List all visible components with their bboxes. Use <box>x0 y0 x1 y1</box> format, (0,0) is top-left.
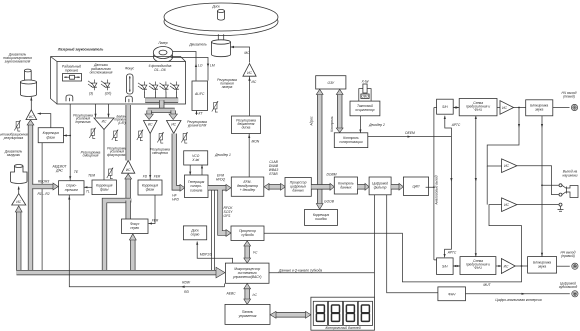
amp IC headphone R <box>502 198 517 212</box>
wire mute to RCA left <box>553 107 570 109</box>
wires VCO to sync generator <box>190 165 202 175</box>
positioning motor small cylinder <box>25 71 32 81</box>
svg-text:S/H: S/H <box>442 265 448 269</box>
box sync control <box>334 133 368 148</box>
box K2 phase correction tracking <box>92 180 116 195</box>
svg-text:Двигатель: Двигатель <box>188 43 207 47</box>
svg-text:смещения: смещения <box>152 151 168 155</box>
box control panel <box>225 304 270 324</box>
svg-text:Фокус: Фокус <box>125 67 135 71</box>
pot T_C right <box>181 132 187 143</box>
wire bottom channel line <box>453 265 527 267</box>
svg-text:ИС: ИС <box>504 264 509 268</box>
box microprocessor BACY <box>225 263 269 283</box>
wire laser to ALFC lines LO LM <box>171 52 209 81</box>
bus left main from antivib amp down <box>28 125 33 271</box>
wire T_B output FD FER down to K3 <box>149 134 151 181</box>
pot antivibration <box>14 120 20 131</box>
svg-text:ИС: ИС <box>29 115 34 119</box>
disc platter lower ellipse <box>164 8 278 36</box>
box pre-amp LPF top <box>459 99 497 116</box>
svg-text:LM: LM <box>210 64 215 68</box>
svg-text:MUT: MUT <box>483 283 491 287</box>
svg-text:Лазерный звукосниматель: Лазерный звукосниматель <box>57 48 103 52</box>
svg-text:Контрольный дисплей: Контрольный дисплей <box>325 326 360 330</box>
svg-text:Лазер: Лазер <box>157 41 167 45</box>
bus T_C output to sync generator <box>174 134 180 188</box>
box K1 phase correction <box>38 128 63 143</box>
display box <box>311 297 375 330</box>
bus I2C microprocessor to panel <box>245 288 250 299</box>
svg-text:X-tal: X-tal <box>361 80 369 84</box>
box ALFC laser power <box>192 81 208 111</box>
svg-text:ФНЧ: ФНЧ <box>474 108 482 112</box>
box S/H top <box>437 99 454 114</box>
amp IC bottom channel <box>501 259 515 274</box>
svg-text:RD: RD <box>184 290 189 294</box>
amp IC focus drive <box>122 160 135 173</box>
radial tracking coil element <box>63 74 82 82</box>
svg-text:Контроль: Контроль <box>330 116 334 132</box>
svg-text:ДАС: ДАС <box>55 168 63 172</box>
wire to pre-amp top and bottom <box>475 116 477 257</box>
box K3 phase correction focus <box>138 180 162 195</box>
svg-text:X-tal: X-tal <box>191 158 199 162</box>
main photodiode D4 <box>170 82 179 93</box>
bus processor to data control <box>311 184 330 189</box>
svg-text:I²C: I²C <box>253 293 258 297</box>
svg-text:серво: серво <box>191 233 200 237</box>
svg-text:AL/FC: AL/FC <box>194 92 205 96</box>
wire headphone R out to jack <box>517 204 559 206</box>
wire DAC output vertical to both S/H <box>426 108 437 260</box>
svg-text:ИС: ИС <box>16 200 21 204</box>
pot tracking balance <box>112 130 118 141</box>
label LO LM arrows <box>195 64 197 67</box>
box pre-amp LPF bottom <box>460 257 496 275</box>
box sound mute bottom <box>528 257 557 274</box>
svg-text:D1...D6: D1...D6 <box>154 68 165 72</box>
svg-text:Цифро-аналоговая конверсия: Цифро-аналоговая конверсия <box>495 298 541 302</box>
box FNCH <box>438 287 466 301</box>
big system bus to microprocessor <box>17 270 217 275</box>
svg-text:LO: LO <box>198 64 203 68</box>
bus focus servo output up <box>126 201 131 220</box>
box servo tracking <box>59 181 84 195</box>
svg-text:фазы: фазы <box>146 188 155 192</box>
wire K1 bottom down <box>41 143 43 270</box>
svg-text:FER: FER <box>152 219 159 223</box>
jack contact circles <box>559 184 562 187</box>
amp IC EFM (T_C) <box>167 121 182 134</box>
box sync generator <box>185 175 209 198</box>
wire MON from EFM decoder to disc motor regulator <box>248 134 250 178</box>
label KT under ALFC <box>196 111 198 116</box>
svg-text:(Об): (Об) <box>105 92 112 96</box>
svg-text:HFD: HFD <box>172 197 179 201</box>
wire load amp to motor <box>18 187 20 194</box>
box S/H bottom <box>437 258 454 275</box>
svg-text:МС: МС <box>244 51 250 55</box>
svg-text:ИС: ИС <box>171 123 176 127</box>
bus EFM to digital data processor double arrow <box>269 184 282 189</box>
bus data control to digital filter <box>358 184 366 189</box>
svg-text:управления(ВАСУ): управления(ВАСУ) <box>232 275 261 279</box>
positioning motor big cylinder <box>20 82 36 96</box>
svg-text:данных: данных <box>340 186 352 190</box>
wire amp input from disc motor regulator <box>249 76 251 116</box>
svg-text:(L/R): (L/R) <box>118 121 125 125</box>
svg-text:загрузки: загрузки <box>6 153 20 157</box>
svg-text:(правый): (правый) <box>561 254 575 258</box>
svg-text:серво: серво <box>130 226 139 230</box>
wire Q channel data <box>269 272 374 274</box>
svg-text:трекинг: трекинг <box>65 188 79 192</box>
svg-text:Данные в Q-канале субкода: Данные в Q-канале субкода <box>278 268 322 272</box>
wire K1 output to antivib amp <box>38 114 51 128</box>
svg-text:HFDQ: HFDQ <box>216 177 226 181</box>
svg-text:REOR3: REOR3 <box>38 180 50 184</box>
box subcode processor <box>231 226 264 241</box>
pot T_B right <box>157 132 163 143</box>
digit cell 1 <box>313 301 327 325</box>
bus address RAM to error correction <box>317 94 322 204</box>
svg-text:MDP1/S: MDP1/S <box>200 253 213 257</box>
svg-text:GOOB: GOOB <box>324 200 335 204</box>
svg-text:регулировка: регулировка <box>3 136 24 140</box>
svg-text:управления: управления <box>238 314 257 318</box>
jack plug symbol <box>562 185 578 197</box>
svg-text:ИС: ИС <box>504 164 509 168</box>
bus into focus servo bottom from main bus <box>130 240 135 270</box>
pot tracking gain <box>89 128 95 139</box>
wire headphone R amp input vertical <box>486 166 488 205</box>
svg-text:FER: FER <box>154 175 161 179</box>
box disc motor regulator <box>232 116 261 134</box>
summing bus bar under photodiodes <box>145 92 177 98</box>
main photodiode D2 <box>149 82 158 93</box>
wire servo tracking bottom RD <box>69 195 224 287</box>
svg-text:сигнала: сигнала <box>190 188 203 192</box>
junction bottom channel <box>521 265 523 267</box>
svg-text:ФНЧ: ФНЧ <box>474 266 482 270</box>
rca connector left out <box>571 104 577 110</box>
main photodiode D3 <box>160 82 169 93</box>
box data control <box>334 177 357 194</box>
load motor cylinder <box>11 166 27 184</box>
wire MC motor control <box>231 47 250 63</box>
svg-text:ИС: ИС <box>102 120 107 124</box>
amp IC focus error (T_B) <box>144 121 158 134</box>
wire DEEM to S/H top and bottom <box>368 116 452 258</box>
box DAC <box>403 177 428 195</box>
svg-text:ИС: ИС <box>126 168 131 172</box>
box disc servo <box>183 226 206 240</box>
svg-text:трекинг: трекинг <box>65 68 79 72</box>
bus digital filter to DAC <box>391 184 399 189</box>
digit cell 4 <box>358 301 372 325</box>
amp IC tracking error (T_A) <box>94 118 114 130</box>
svg-text:Диск: Диск <box>211 5 220 9</box>
wire T_A output down to K2 <box>103 130 105 181</box>
box VCO <box>184 151 208 165</box>
wire mute line vertical to bottom mute <box>541 116 543 257</box>
svg-text:FD: FD <box>143 175 148 179</box>
box digital data processor <box>285 178 311 197</box>
wire K3 to focus servo FER <box>149 195 156 224</box>
box digital filter <box>369 177 391 195</box>
wire FNCH to digital RCA <box>466 293 570 295</box>
coil under radial tracking <box>66 95 73 101</box>
svg-text:ИС: ИС <box>504 203 509 207</box>
photodiode sensor 2 <box>101 80 110 91</box>
wire K1 input from TE line <box>63 135 70 137</box>
bus T junction to main bus <box>105 201 131 271</box>
wire top channel line <box>453 107 526 109</box>
wire antivib amp to positioning motor <box>30 97 32 111</box>
svg-text:звукоснимателя: звукоснимателя <box>4 59 31 63</box>
bus drop to EFM amp C <box>171 110 176 114</box>
amp IC headphone L <box>502 159 517 173</box>
bus lower bar <box>148 108 175 113</box>
svg-text:уровня EFM: уровня EFM <box>187 123 207 127</box>
rca connector right out <box>572 263 578 269</box>
svg-text:Декодер 2: Декодер 2 <box>368 123 385 127</box>
svg-text:ОВО: ОВО <box>361 95 369 99</box>
box error correction <box>305 210 338 226</box>
svg-text:фазы: фазы <box>47 135 56 139</box>
main photodiode D1 <box>138 82 147 93</box>
box RAM <box>316 76 346 89</box>
svg-text:(левый): (левый) <box>563 95 575 99</box>
svg-text:АРТС: АРТС <box>447 251 457 255</box>
photodiode sensor 1 <box>88 80 97 91</box>
svg-text:ТЕМ: ТЕМ <box>88 174 95 178</box>
digit cell 3 <box>344 301 358 325</box>
svg-text:фокусировки: фокусировки <box>107 153 127 157</box>
box clock oscillator <box>350 101 380 116</box>
wire digital filter down to display (Q join) <box>374 195 376 297</box>
svg-text:ошибок: ошибок <box>315 217 327 221</box>
svg-text:ТL: ТL <box>86 190 90 194</box>
wires HF HFD down to system bus <box>212 190 215 270</box>
disc platter top ellipse <box>164 3 278 31</box>
svg-text:ОЗУ: ОЗУ <box>328 81 335 85</box>
bus REOR3 arrow into servo tracking <box>32 184 53 189</box>
laser ring <box>153 51 172 63</box>
digit cell 2 <box>328 301 342 325</box>
bus drop to EFM amp B <box>146 110 151 114</box>
amp IC load motor <box>12 194 26 205</box>
svg-text:аудиовыход: аудиовыход <box>559 285 577 289</box>
svg-text:MON: MON <box>252 140 260 144</box>
coil under focus <box>126 96 133 102</box>
focus actuator capsule <box>127 74 134 94</box>
pot TEM on T_A output <box>107 168 113 179</box>
wire oscillator to sync control <box>359 116 361 133</box>
bus drop to subcode processor <box>220 190 226 233</box>
svg-text:трекинга: трекинга <box>75 120 90 124</box>
svg-text:АРТС: АРТС <box>451 123 461 127</box>
svg-text:RDW: RDW <box>182 281 191 285</box>
svg-text:ФНЧ: ФНЧ <box>448 293 456 297</box>
junction top channel <box>518 107 520 109</box>
bus focus drive up to pickup <box>126 105 131 160</box>
svg-text:данных: данных <box>292 189 304 193</box>
pot laser power <box>212 101 218 112</box>
svg-text:диска: диска <box>242 126 251 130</box>
box sound mute top <box>526 100 553 116</box>
wire mute to RCA right <box>557 265 570 267</box>
svg-text:АЕВС: АЕВС <box>226 292 237 296</box>
svg-text:(З): (З) <box>89 92 93 96</box>
disc hub cylinder <box>218 11 225 20</box>
bus sync generator to EFM decoder <box>208 185 226 190</box>
svg-text:наушники: наушники <box>563 173 578 177</box>
svg-text:звука: звука <box>537 265 546 269</box>
svg-text:GFS: GFS <box>224 214 232 218</box>
svg-text:R1 – R2: R1 – R2 <box>37 192 49 196</box>
svg-text:звука: звука <box>534 108 543 112</box>
svg-text:Аналоговый выход: Аналоговый выход <box>435 175 439 205</box>
amp IC top channel <box>500 101 514 115</box>
svg-text:ЕГАВ: ЕГАВ <box>269 172 278 176</box>
svg-text:ИС: ИС <box>247 71 252 75</box>
amp IC disc motor <box>243 64 256 77</box>
svg-text:лазера: лазера <box>221 85 233 89</box>
svg-text:смещения: смещения <box>83 154 99 158</box>
bus focus amp input from focus servo <box>126 179 131 201</box>
amp IC antivibration <box>26 110 37 120</box>
bus control RAM to sync control <box>337 94 342 129</box>
pot T_B left <box>137 130 143 141</box>
wire K2 to servo tracking <box>84 186 92 188</box>
box focus servo <box>122 219 149 234</box>
wire digital filter to FNCH digital out <box>387 195 438 293</box>
rca connector digital out <box>572 291 578 297</box>
svg-text:синхронизации: синхронизации <box>339 140 362 144</box>
bus panel to display double arrow <box>276 312 307 317</box>
svg-text:фильтр: фильтр <box>374 186 387 190</box>
svg-text:S/H: S/H <box>442 105 448 109</box>
disc motor cylinder <box>212 42 231 57</box>
wire MDP1/S to microprocessor <box>197 242 232 264</box>
svg-text:Адрес: Адрес <box>310 116 314 127</box>
box EFM demodulator decoder <box>231 177 263 196</box>
crystal element <box>363 84 367 93</box>
svg-text:осциллятор: осциллятор <box>355 108 374 112</box>
wire TE tracking drive: pickup to servo tracking <box>69 104 71 181</box>
wire subcode to MUT line <box>264 205 522 282</box>
svg-text:Декодер 1: Декодер 1 <box>214 153 231 157</box>
svg-text:+ декодер: + декодер <box>240 188 256 192</box>
svg-text:отслеживания: отслеживания <box>90 71 113 75</box>
svg-text:субкода: субкода <box>241 233 253 237</box>
spindle shaft <box>218 34 223 40</box>
svg-text:I²C: I²C <box>253 251 258 255</box>
svg-text:DOBM: DOBM <box>327 173 337 177</box>
wire junction down to headphone L amp <box>487 108 519 167</box>
svg-text:ЦАП: ЦАП <box>413 185 421 189</box>
laser pickup 3D box <box>51 57 186 105</box>
bus center stem <box>159 100 164 110</box>
svg-text:фазы: фазы <box>100 188 109 192</box>
bus load amp input from main bus <box>16 212 21 271</box>
bus I2C subcode to microprocessor <box>245 246 250 259</box>
wire headphone L out to jack ring <box>517 166 559 195</box>
svg-text:DEEM: DEEM <box>405 131 415 135</box>
wires sensors to amp T_A <box>96 104 109 117</box>
ground symbol jack <box>558 206 564 211</box>
svg-text:ИС: ИС <box>148 123 153 127</box>
svg-text:ИС: ИС <box>502 106 507 110</box>
svg-text:ИС: ИС <box>252 80 257 84</box>
